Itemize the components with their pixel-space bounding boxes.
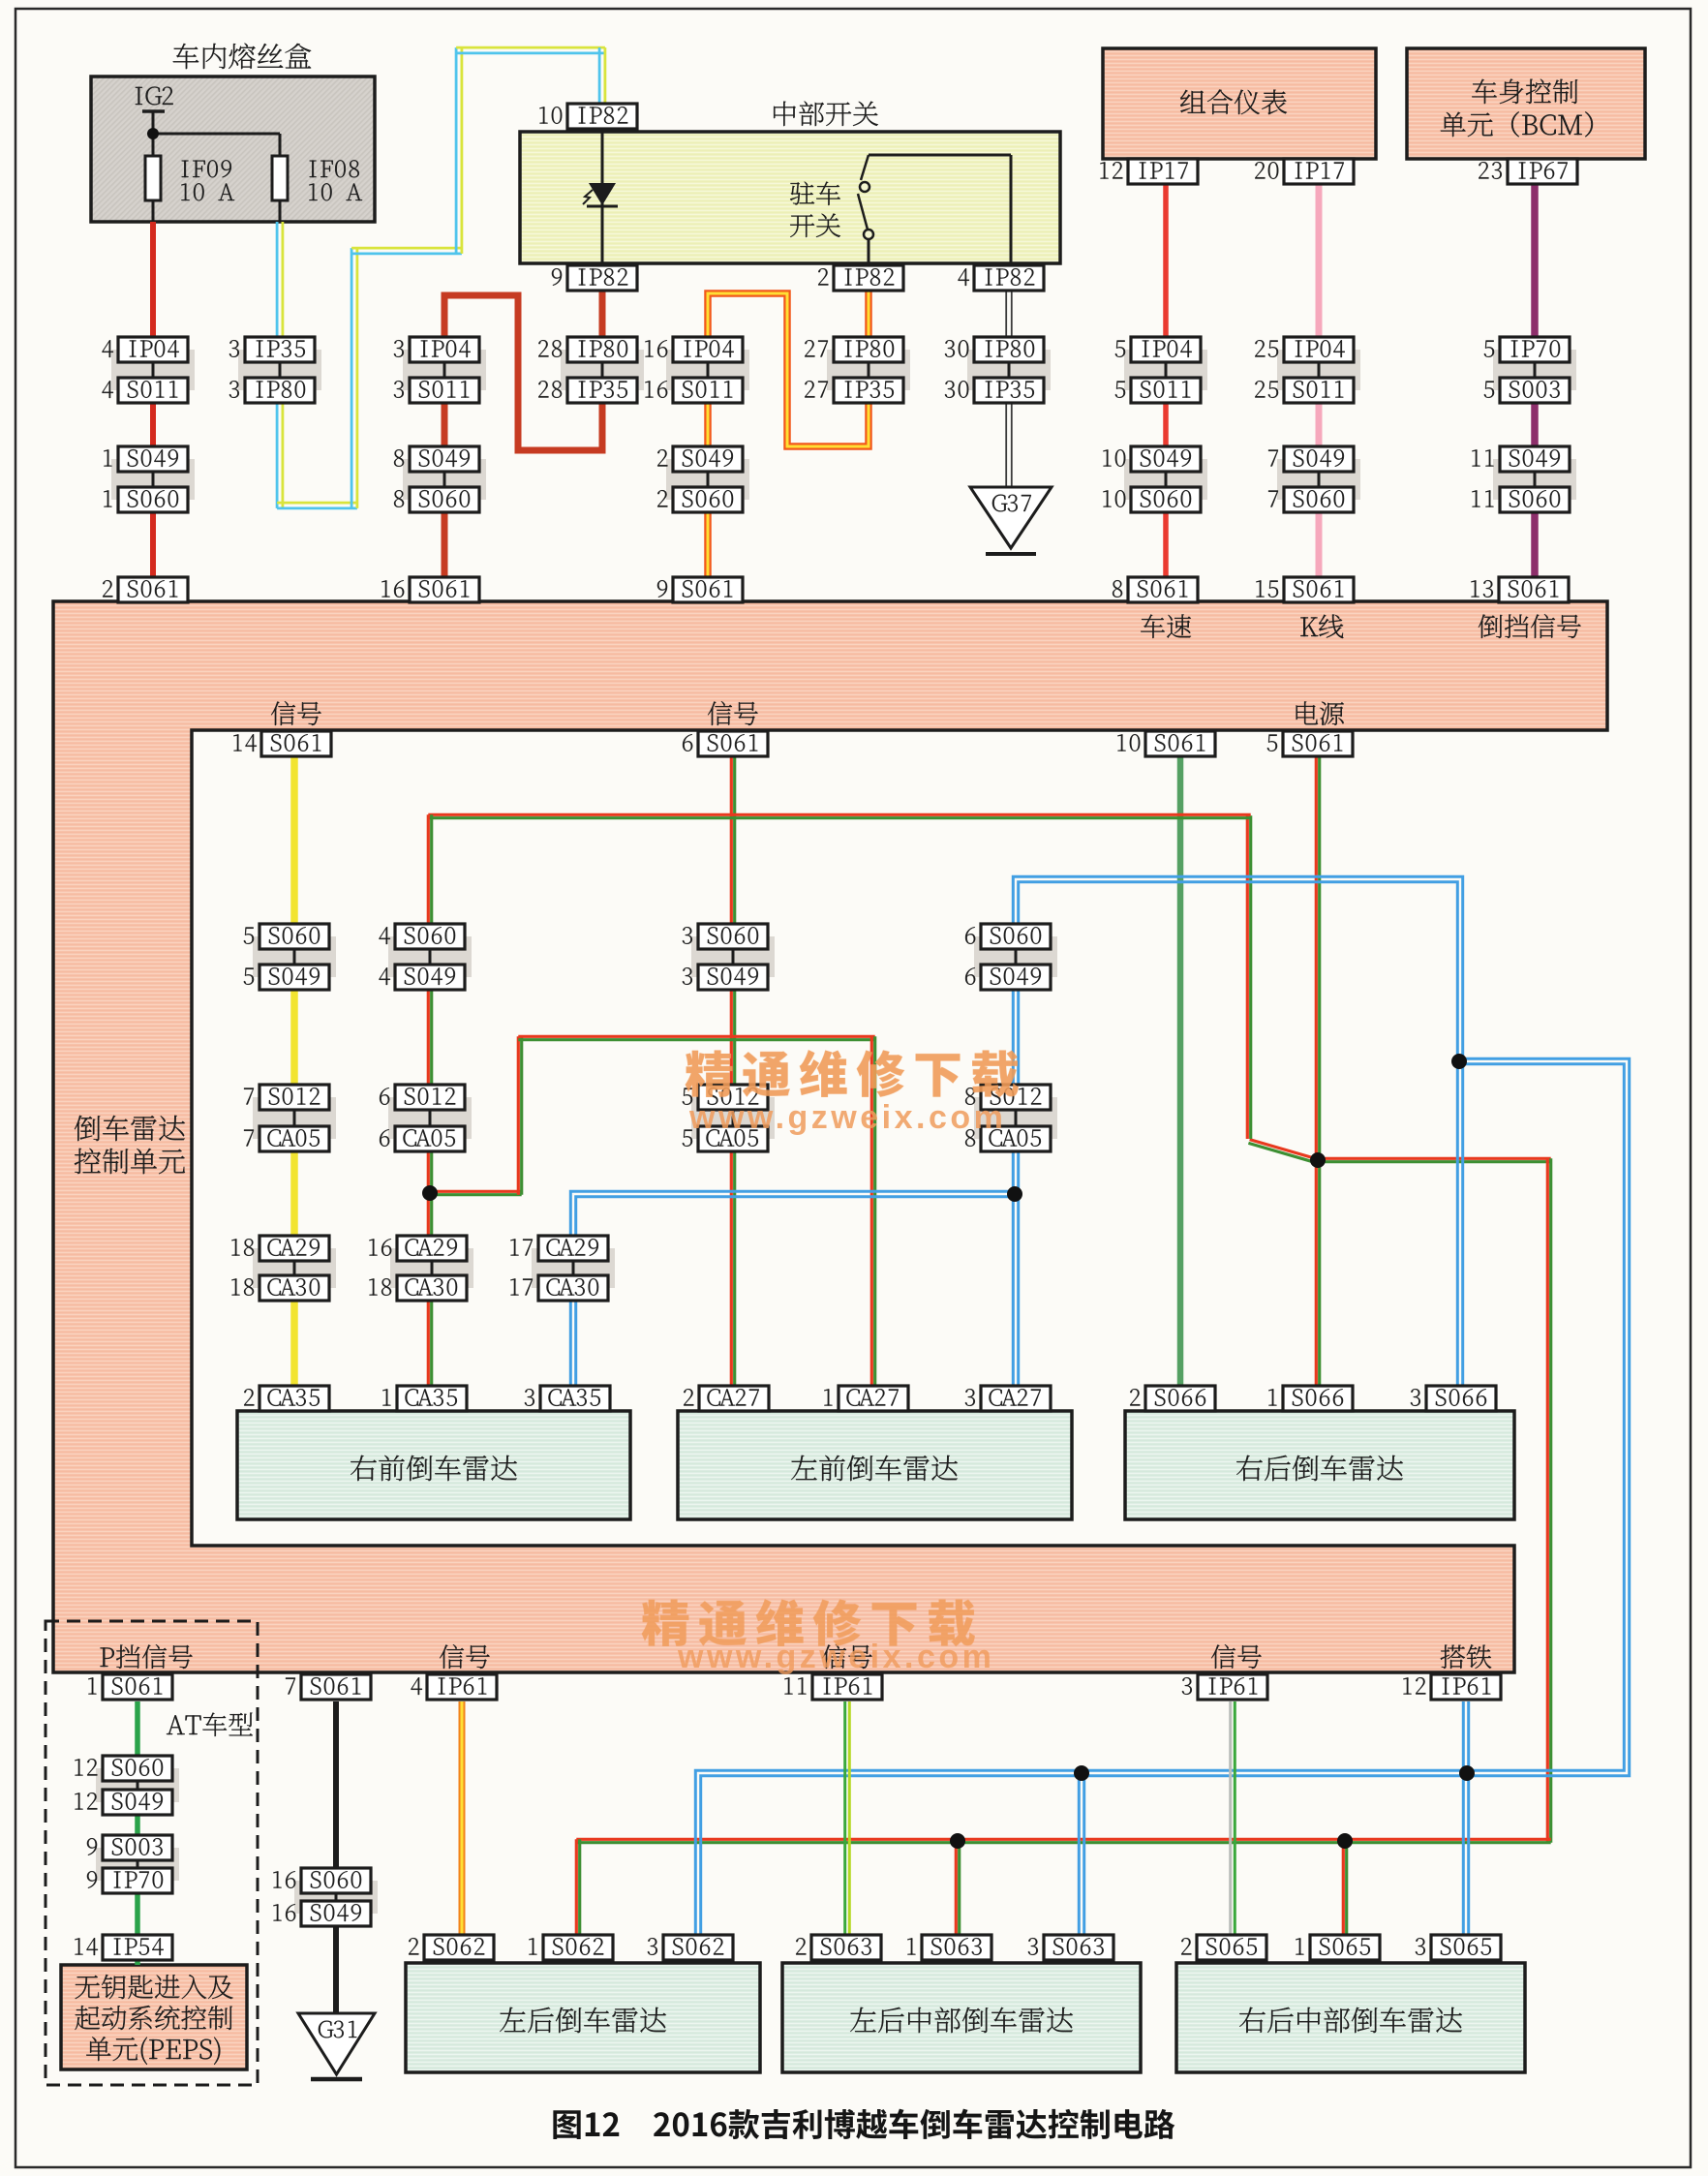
connector 4 S060	[395, 924, 465, 949]
connector 5 S011	[1131, 378, 1201, 403]
connector 3 S065	[1431, 1935, 1501, 1960]
connector 3 S011	[410, 378, 479, 403]
connector 18 CA30	[259, 1275, 329, 1301]
wire green from 1 S061 to PEPS	[135, 1701, 140, 1965]
wire purple from 23 IP67 to 13 S061	[1531, 184, 1539, 577]
connector 20 IP17	[1284, 159, 1354, 184]
connector 12 S049	[103, 1790, 172, 1815]
wire blue ground 12 IP61 to 3 S065	[1467, 1701, 1470, 1935]
connector 3 S066	[1426, 1386, 1496, 1411]
connector 28 IP80	[567, 337, 637, 362]
connector pair shadow	[238, 350, 321, 390]
band label 车速	[1141, 614, 1191, 638]
band label 搭铁	[1441, 1644, 1492, 1669]
connector 7 S049	[1284, 446, 1354, 472]
wire black from 7 S061 to ground G31	[333, 1701, 339, 2013]
connector pair shadow	[666, 350, 749, 390]
connector pair shadow	[388, 1097, 472, 1139]
connector 5 S049	[259, 965, 329, 990]
rear left radar box 左后倒车雷达	[406, 1963, 760, 2072]
connector pair shadow	[532, 1248, 615, 1288]
fuse box internal wiring	[142, 109, 165, 113]
wire red/green power to rear radar bus	[1318, 1157, 1551, 1160]
connector 2 S060	[673, 487, 743, 512]
connector 7 S061	[301, 1674, 371, 1700]
connector 1 S063	[922, 1935, 991, 1960]
connector 3 IP80	[245, 378, 315, 403]
junction dot power 5S061	[1310, 1152, 1326, 1168]
junction dot ground mid	[1007, 1186, 1022, 1202]
connector 1 S049	[118, 446, 188, 472]
connector pair shadow	[666, 459, 749, 500]
connector 3 IP04	[410, 337, 479, 362]
watermark 精通维修下载 upper	[686, 1050, 1019, 1097]
connector 6 S060	[981, 924, 1051, 949]
junction dot IG2	[147, 128, 159, 139]
connector 8 S049	[410, 446, 479, 472]
band label 信号 over 11IP61	[822, 1644, 872, 1669]
connector 5 S061	[1283, 731, 1353, 756]
connector pair shadow	[1124, 350, 1207, 390]
connector 3 IP35	[245, 337, 315, 362]
connector 2 S061	[118, 577, 188, 602]
front right radar box 右前倒车雷达	[237, 1411, 630, 1519]
rear left center radar box 左后中部倒车雷达	[782, 1963, 1141, 2072]
connector pair shadow	[403, 459, 486, 500]
wire dark red from 9 IP82 to 16 S061	[444, 290, 602, 577]
connector 30 IP80	[974, 337, 1044, 362]
connector 2 CA27	[699, 1386, 769, 1411]
junction dot power bus at 1 S063	[950, 1833, 965, 1849]
wire yellowgreen pair from 11 IP61 to 2 S063	[848, 1701, 851, 1935]
ground G37	[970, 487, 1052, 548]
connector 2 S049	[673, 446, 743, 472]
connector pair shadow	[403, 350, 486, 390]
parking switch symbol 驻车开关	[790, 182, 840, 205]
wire red/green drop to 1 S063	[955, 1841, 958, 1935]
connector 2 CA35	[259, 1386, 329, 1411]
connector 16 IP04	[673, 337, 743, 362]
connector 5 CA05	[698, 1126, 768, 1151]
connector 18 CA30	[397, 1275, 467, 1301]
connector 13 S061	[1499, 577, 1569, 602]
connector 30 IP35	[974, 378, 1044, 403]
PEPS control unit box	[61, 1965, 247, 2069]
fuse box 车内熔丝盒	[91, 77, 375, 222]
connector 15 S061	[1284, 577, 1354, 602]
connector 16 S011	[673, 378, 743, 403]
connector pair shadow	[691, 936, 775, 977]
connector 8 S060	[410, 487, 479, 512]
connector 28 IP35	[567, 378, 637, 403]
connector 9 IP82	[567, 265, 637, 291]
connector 6 CA05	[395, 1126, 465, 1151]
svg-text:www.gzweix.com: www.gzweix.com	[688, 1099, 1006, 1136]
wire pink from 20 IP17 to 15 S061	[1316, 184, 1323, 577]
label AT车型	[167, 1713, 253, 1736]
band label K线	[1300, 614, 1343, 638]
connector 6 S061	[698, 731, 768, 756]
connector 16 CA29	[397, 1236, 467, 1261]
connector pair shadow	[967, 350, 1051, 390]
connector 3 S049	[698, 965, 768, 990]
band label 信号 over 4IP61	[440, 1644, 490, 1669]
connector 4 IP82	[974, 265, 1044, 291]
fuse IF09 10A	[145, 156, 161, 200]
connector 3 S063	[1044, 1935, 1113, 1960]
ground G31	[298, 2013, 375, 2074]
connector pair shadow	[974, 1097, 1057, 1139]
junction dot power front	[422, 1185, 438, 1201]
connector 17 CA30	[538, 1275, 608, 1301]
wire green from 10 S061 to 2 S066	[1177, 756, 1184, 1386]
band label 电源	[1296, 701, 1344, 725]
connector 8 S012	[981, 1085, 1051, 1110]
connector 9 S061	[673, 577, 743, 602]
wire blue ground to rear section	[701, 1058, 1630, 1935]
connector 6 S012	[395, 1085, 465, 1110]
connector pair shadow	[253, 1097, 336, 1139]
connector 16 S061	[410, 577, 479, 602]
wire yellow from 14 S061 to 2 CA35	[290, 756, 298, 1386]
connector 2 IP82	[834, 265, 903, 291]
connector pair shadow	[1493, 459, 1576, 500]
instrument cluster 组合仪表	[1103, 48, 1376, 159]
connector pair shadow	[294, 1881, 378, 1914]
wire red/green power branch riser	[1246, 815, 1249, 1139]
connector 1 S066	[1283, 1386, 1353, 1411]
connector pair shadow	[111, 459, 195, 500]
wire red/green power branch crossbar	[428, 813, 1250, 816]
connector 16 S060	[301, 1868, 371, 1893]
connector 3 CA27	[981, 1386, 1051, 1411]
wire cyan/yellow pair from IF08 to 10 IP82	[276, 222, 279, 508]
BCM box 车身控制单元	[1407, 48, 1645, 159]
connector 14 S061	[261, 731, 331, 756]
connector 7 S012	[259, 1085, 329, 1110]
wire red from 12 IP17 to 8 S061	[1163, 184, 1169, 577]
connector 1 S065	[1310, 1935, 1380, 1960]
connector 10 IP82	[567, 104, 637, 129]
middle switch box 中部开关	[520, 132, 1060, 263]
connector pair shadow	[96, 1848, 179, 1881]
connector 11 S049	[1500, 446, 1570, 472]
connector 10 S049	[1131, 446, 1201, 472]
rear right radar box 右后倒车雷达	[1125, 1411, 1514, 1519]
connector 12 S060	[103, 1756, 172, 1781]
caption 图12	[553, 2109, 1174, 2139]
connector 8 CA05	[981, 1126, 1051, 1151]
connector 7 CA05	[259, 1126, 329, 1151]
AT model dashed box	[46, 1621, 258, 2085]
reversing radar control unit band 倒车雷达控制单元	[53, 601, 1607, 1672]
connector 1 CA35	[397, 1386, 467, 1411]
connector 10 S061	[1145, 731, 1215, 756]
connector 3 IP61	[1198, 1674, 1267, 1700]
IG2 label	[136, 87, 173, 106]
wire green/grey pair from 3 IP61 to 2 S065	[1234, 1701, 1236, 1935]
connector 3 CA35	[540, 1386, 610, 1411]
connector 12 IP61	[1431, 1674, 1501, 1700]
band label P挡信号	[101, 1644, 193, 1669]
connector pair shadow	[96, 1768, 179, 1802]
connector 6 S049	[981, 965, 1051, 990]
connector pair shadow	[388, 936, 472, 977]
connector pair shadow	[1277, 350, 1360, 390]
connector 10 S060	[1131, 487, 1201, 512]
connector 5 S060	[259, 924, 329, 949]
connector 27 IP35	[834, 378, 903, 403]
connector 5 IP04	[1131, 337, 1201, 362]
connector 2 S066	[1145, 1386, 1215, 1411]
connector 11 S060	[1500, 487, 1570, 512]
connector 23 IP67	[1508, 159, 1577, 184]
connector 18 CA29	[259, 1236, 329, 1261]
connector 25 S011	[1284, 378, 1354, 403]
connector 16 S049	[301, 1901, 371, 1926]
watermark 精通维修下载 lower	[642, 1599, 975, 1646]
wire red/green signal from 6 S061 to 2 CA27	[730, 756, 733, 1386]
connector 1 S062	[543, 1935, 613, 1960]
connector pair shadow	[691, 1097, 775, 1139]
wire red/green power branch down column	[427, 814, 430, 1193]
connector 11 IP61	[812, 1674, 882, 1700]
LED inside switch	[601, 131, 604, 265]
connector 4 S011	[118, 378, 188, 403]
junction dot ground bus at 3 S063	[1074, 1765, 1089, 1781]
connector pair shadow	[827, 350, 910, 390]
connector pair shadow	[111, 350, 195, 390]
connector 5 S003	[1500, 378, 1570, 403]
wire red/green drop to 1 S065	[1342, 1841, 1345, 1935]
connector pair shadow	[1277, 459, 1360, 500]
connector 14 IP54	[103, 1935, 172, 1960]
wire red from IG2 fuse IF09 to 2 S061	[150, 222, 156, 577]
connector 4 IP04	[118, 337, 188, 362]
junction dot power bus at 1 S065	[1337, 1833, 1353, 1849]
connector 4 IP61	[427, 1674, 497, 1700]
connector pair shadow	[253, 936, 336, 977]
connector 8 S061	[1128, 577, 1198, 602]
connector 9 IP70	[103, 1868, 172, 1893]
front left radar box 左前倒车雷达	[678, 1411, 1072, 1519]
connector 25 IP04	[1284, 337, 1354, 362]
svg-text:www.gzweix.com: www.gzweix.com	[677, 1639, 994, 1675]
band label 信号 over 6S061	[708, 701, 758, 725]
band label 信号 over 14S061	[271, 701, 321, 725]
connector 3 S060	[698, 924, 768, 949]
connector 1 CA27	[839, 1386, 908, 1411]
connector 1 S061	[103, 1674, 172, 1700]
band label 倒挡信号	[1479, 614, 1581, 638]
wire red/green power down to 1 CA35	[427, 1193, 430, 1386]
connector 2 S065	[1197, 1935, 1266, 1960]
wire white from 4 IP82 to ground G37	[1011, 290, 1013, 487]
connector 4 S049	[395, 965, 465, 990]
wire blue ground 3 CA27 column up and over to 3 S066	[1013, 876, 1462, 1386]
connector 5 S012	[698, 1085, 768, 1110]
rear right center radar box 右后中部倒车雷达	[1176, 1963, 1525, 2072]
connector 3 S062	[663, 1935, 733, 1960]
connector 27 IP80	[834, 337, 903, 362]
connector 2 S063	[811, 1935, 881, 1960]
connector 5 IP70	[1500, 337, 1570, 362]
connector pair shadow	[1493, 350, 1576, 390]
connector 9 S003	[103, 1835, 172, 1860]
connector 17 CA29	[538, 1236, 608, 1261]
junction dot ground right	[1451, 1054, 1467, 1069]
connector pair shadow	[1124, 459, 1207, 500]
connector 1 S060	[118, 487, 188, 512]
wire red/green power from 5 S061 to 1 S066 via junction	[1315, 756, 1318, 1386]
connector 2 S062	[424, 1935, 494, 1960]
connector pair shadow	[561, 350, 644, 390]
band label 信号 over 3IP61	[1211, 1644, 1262, 1669]
wire blue ground drop to 3 S063	[1083, 1773, 1085, 1935]
connector 7 S060	[1284, 487, 1354, 512]
wire orange/yellow from 4 IP61 to 2 S062	[459, 1701, 466, 1935]
connector pair shadow	[390, 1248, 473, 1288]
junction dot ground bus at 12 IP61	[1459, 1765, 1475, 1781]
wire blue ground from 3 CA35 to junction	[570, 1191, 1015, 1386]
wire red/green power branch diagonal	[1250, 1140, 1316, 1159]
connector pair shadow	[974, 936, 1057, 977]
wire orange/yellow from 2 IP82 to 9 S061	[708, 290, 869, 577]
wire red/green power jog to 1 CA27	[430, 1190, 522, 1193]
fuse IF08 10A	[272, 156, 288, 200]
connector 12 IP17	[1128, 159, 1198, 184]
connector pair shadow	[253, 1248, 336, 1288]
